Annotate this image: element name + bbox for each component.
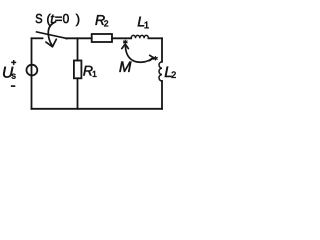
wire R1 top lead <box>77 38 79 60</box>
label Us <box>3 67 15 79</box>
inductor L1 coil <box>131 35 148 38</box>
mutual inductance M arrow <box>122 44 154 62</box>
label S (t=0) <box>36 14 80 26</box>
coupling dot star L2 <box>154 57 158 60</box>
wire left vertical <box>31 38 33 109</box>
switch closing arrow <box>46 22 56 47</box>
wire R2 to L1 <box>112 37 131 39</box>
source minus sign <box>11 85 15 87</box>
wire R1 bottom lead <box>77 78 79 109</box>
wire switch to R2 <box>66 37 92 39</box>
wire right vertical lower <box>161 81 163 109</box>
wire bottom <box>32 108 163 110</box>
source Us circle <box>27 65 38 76</box>
inductor L2 coil <box>159 62 162 81</box>
label R2 <box>95 15 108 26</box>
wire right vertical upper <box>161 38 163 62</box>
label L2 <box>165 67 176 78</box>
switch S blade <box>37 32 68 39</box>
wire top-left stub <box>32 37 43 39</box>
label R1 <box>83 66 96 77</box>
label M <box>119 62 131 72</box>
source plus sign <box>11 60 16 65</box>
coupling dot star L1 <box>124 40 128 43</box>
resistor R1 body <box>74 61 82 79</box>
label L1 <box>138 17 149 28</box>
resistor R2 body <box>92 34 112 42</box>
wire L1 to top-right corner <box>148 37 162 39</box>
